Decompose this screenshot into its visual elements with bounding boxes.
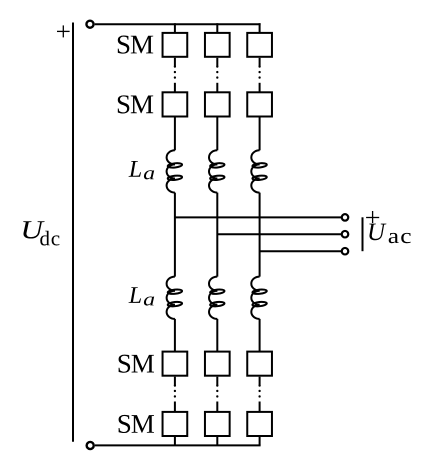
wire: leg3 row3-row4 lower stub [259, 402, 261, 412]
SM submodule box leg2 row4 [205, 412, 230, 436]
node: positive DC terminal circle top-left [86, 21, 93, 28]
SM submodule box leg3 row2 [247, 92, 272, 116]
wire: leg2 row1-row2 upper stub [216, 58, 218, 67]
wire: leg2 row1-row2 lower stub [216, 83, 218, 93]
inductor La upper leg2 [209, 150, 225, 192]
SM submodule box leg2 row2 [205, 92, 230, 116]
wire: leg3 row1-row2 upper stub [259, 58, 261, 67]
wire: AC phase line 3 from leg3 to terminal [260, 250, 342, 252]
wire: leg2 dotted ellipsis row1-row2 [216, 67, 218, 83]
wire: leg1 row1-row2 lower stub [174, 83, 176, 93]
label Uac [369, 224, 386, 241]
wire: top DC bus from terminal to leg 3 [95, 23, 261, 25]
node: negative DC terminal circle bottom-left [87, 442, 94, 449]
SM submodule box leg1 row2 [163, 92, 188, 116]
wire: leg3 upper inductor to lower inductor (through AC node) [259, 193, 261, 277]
inductor La lower leg3 [251, 277, 267, 319]
voltage bracket bar for Uac [362, 217, 364, 251]
wire: leg2 bottom stub to bus [216, 437, 218, 445]
wire: leg1 row1-row2 upper stub [174, 58, 176, 67]
plus polarity sign for Udc [57, 25, 70, 37]
label SM row4 [119, 415, 154, 433]
node: AC terminal circle phase 1 [342, 214, 349, 221]
SM submodule box leg3 row4 [247, 412, 272, 436]
wire: AC phase line 1 from leg1 to terminal [175, 216, 342, 218]
SM submodule box leg1 row1 [163, 33, 188, 57]
wire: leg1 bottom stub to bus [174, 437, 176, 445]
wire: leg1 dotted ellipsis row3-row4 [174, 386, 176, 402]
SM submodule box leg3 row3 [247, 352, 272, 376]
wire: leg2 lower inductor to row3 box [216, 319, 218, 352]
wire: leg3 lower inductor to row3 box [259, 319, 261, 352]
node: AC terminal circle phase 3 [342, 248, 349, 255]
SM submodule box leg1 row3 [163, 352, 188, 376]
wire: leg3 dotted ellipsis row1-row2 [258, 67, 260, 83]
node: AC terminal circle phase 2 [342, 231, 349, 238]
wire: leg3 top stub [259, 23, 261, 33]
wire: leg2 upper inductor to lower inductor (through AC node) [216, 193, 218, 277]
wire: leg2 dotted ellipsis row3-row4 [216, 386, 218, 402]
wire: leg1 row3-row4 upper stub [174, 377, 176, 386]
inductor La lower leg2 [209, 277, 225, 319]
wire: leg3 row3-row4 upper stub [259, 377, 261, 386]
inductor La upper leg1 [167, 150, 183, 192]
label Udc [23, 221, 44, 238]
wire: leg2 row2 to upper inductor [216, 118, 218, 151]
wire: leg1 top stub [174, 23, 176, 33]
wire: leg3 dotted ellipsis row3-row4 [258, 386, 260, 402]
plus polarity sign for Uac [366, 211, 379, 223]
wire: leg1 row3-row4 lower stub [174, 402, 176, 412]
inductor La lower leg1 [167, 277, 183, 319]
wire: leg1 lower inductor to row3 box [174, 319, 176, 352]
wire: leg1 dotted ellipsis row1-row2 [174, 67, 176, 83]
wire: AC phase line 2 from leg2 to terminal [217, 233, 341, 235]
inductor La upper leg3 [251, 150, 267, 192]
label SM row2 [118, 95, 153, 113]
wire: DC voltage rail line [72, 23, 74, 442]
wire: leg3 bottom stub to bus [259, 437, 261, 445]
label SM row3 [119, 355, 154, 373]
wire: leg2 row3-row4 upper stub [216, 377, 218, 386]
label SM row1 [118, 36, 153, 54]
wire: leg3 row2 to upper inductor [259, 118, 261, 151]
wire: leg3 row1-row2 lower stub [259, 83, 261, 93]
wire: bottom DC bus from terminal to leg 3 [95, 444, 261, 446]
label La upper [129, 161, 141, 177]
wire: leg1 upper inductor to lower inductor (through AC node) [174, 193, 176, 277]
label La lower [129, 287, 141, 303]
wire: leg2 row3-row4 lower stub [216, 402, 218, 412]
wire: leg1 row2 to upper inductor [174, 118, 176, 151]
wire: leg2 top stub [216, 23, 218, 33]
SM submodule box leg2 row1 [205, 33, 230, 57]
SM submodule box leg2 row3 [205, 352, 230, 376]
SM submodule box leg1 row4 [163, 412, 188, 436]
SM submodule box leg3 row1 [247, 33, 272, 57]
